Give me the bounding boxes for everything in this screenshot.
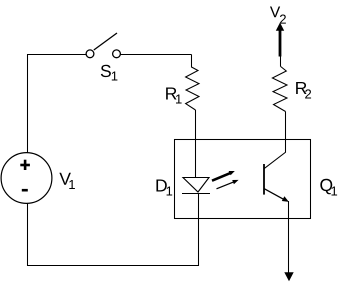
label V2: [270, 7, 280, 18]
label R2 subscript: [305, 89, 311, 98]
label S1: [101, 65, 111, 77]
resistor R2: [272, 66, 287, 111]
wire V1 bottom to ground rail: [27, 203, 29, 266]
label S1 subscript: [112, 72, 118, 81]
transistor Q1 collector lead: [264, 140, 285, 169]
wire R2 to box: [285, 112, 287, 140]
label R2: [296, 82, 306, 94]
label Q1 subscript: [331, 187, 337, 196]
label V1: [59, 173, 71, 185]
light arrow lower: [217, 180, 239, 189]
label D1 subscript: [167, 187, 173, 196]
V2 arrow: [276, 23, 284, 57]
transistor Q1 base bar: [263, 164, 265, 195]
LED D1: [182, 178, 210, 194]
label D1: [156, 179, 166, 191]
label R1 subscript: [176, 95, 182, 104]
wire bottom rail: [27, 265, 199, 267]
transistor Q1 emitter with arrowhead: [264, 189, 289, 202]
wire R1 to LED anode: [195, 110, 197, 177]
voltage source V1: [1, 153, 52, 204]
wire switch to R1 corner: [120, 54, 191, 56]
V1 plus sign: [20, 160, 30, 170]
label V2 subscript: [280, 15, 286, 24]
wire top-left vertical: [27, 55, 29, 153]
wire top from corner to switch: [27, 54, 86, 56]
optocoupler box: [175, 140, 311, 219]
wire LED cathode down to bottom rail: [198, 193, 200, 266]
label Q1: [320, 179, 332, 195]
label V1 subscript: [69, 180, 75, 189]
label R1: [166, 87, 176, 99]
resistor R1: [186, 55, 199, 111]
wire V2 arrow to R2: [280, 57, 282, 67]
switch S1: [86, 33, 120, 58]
light arrow upper: [212, 171, 235, 181]
V1 minus sign: [22, 189, 28, 192]
emitter output arrowhead: [284, 272, 293, 281]
wire emitter output: [288, 201, 290, 273]
